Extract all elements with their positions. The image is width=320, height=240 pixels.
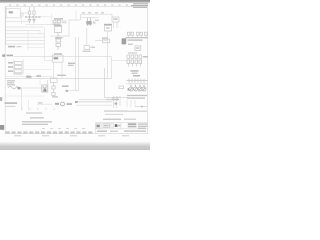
label above C1 <box>57 75 66 76</box>
labels TS1 <box>8 62 13 72</box>
wire W11 <box>21 87 48 89</box>
bottom title text right <box>124 130 146 131</box>
fuse F2 <box>33 7 35 17</box>
motor starter box M1 <box>52 55 63 62</box>
contactor K1 label <box>54 18 63 19</box>
title block header text <box>103 119 121 120</box>
wire W6b <box>28 47 44 49</box>
title block frame <box>96 123 148 134</box>
wire W-top (block B2 feed) <box>81 13 112 15</box>
small label2 above <box>37 75 42 77</box>
marks in LS1 <box>106 27 110 29</box>
bottom title text mid <box>110 131 118 132</box>
riser mid fan <box>27 31 29 50</box>
control box C1 <box>50 78 57 82</box>
label below CG1 row2 <box>132 73 138 74</box>
faint lower wire <box>6 95 44 97</box>
label under SN1 <box>83 51 91 52</box>
node tap right <box>95 20 99 21</box>
bottom title text left <box>97 130 107 132</box>
dark spot <box>115 103 118 105</box>
drop from B1 <box>21 16 23 24</box>
notes text left <box>7 80 15 85</box>
left stub riser <box>39 74 41 85</box>
wire W3 <box>6 33 45 35</box>
stub vertical right <box>51 14 53 20</box>
tick ends row <box>22 108 54 111</box>
corner stamp bottom-left <box>0 125 4 130</box>
tap box <box>21 14 23 16</box>
small box in group <box>113 97 118 100</box>
shielded pair SP1 <box>8 87 19 89</box>
wire W14 <box>37 103 52 105</box>
drop in fan <box>39 31 41 34</box>
notes row A <box>26 112 42 113</box>
arrow head <box>141 105 144 107</box>
tick text above CG1 <box>128 52 137 53</box>
wire W4 <box>6 36 45 38</box>
label right of CG1 <box>143 56 148 58</box>
left feeder bus <box>5 7 7 45</box>
right-mid riser group <box>114 96 121 108</box>
wire W6 <box>6 43 44 45</box>
wire W5 <box>6 40 45 42</box>
node blob <box>75 101 78 103</box>
bus wire L1 <box>25 16 41 18</box>
marks right of coil <box>93 22 96 24</box>
block B3 (small box) <box>112 17 119 22</box>
twin risers mid <box>76 37 79 91</box>
contactor K1 <box>53 20 67 23</box>
riser V3 <box>47 80 49 92</box>
wire W2 <box>6 30 40 32</box>
wire W8 <box>14 56 112 58</box>
label row under L2 <box>128 39 143 40</box>
rev box <box>103 124 110 128</box>
small label above <box>26 76 32 78</box>
wire number marks above <box>82 12 104 13</box>
strip header marks <box>42 128 85 129</box>
label row right <box>127 111 147 112</box>
long wire W10 <box>6 78 112 80</box>
cable schedule strip cells <box>6 131 93 133</box>
label below CG1 <box>131 70 139 72</box>
text right of dwg <box>138 123 148 128</box>
stamp box outline left <box>96 123 101 128</box>
indicator lamps LP1-4 <box>129 85 146 91</box>
contact grid CG1 row1 <box>127 55 142 58</box>
inline fuse on W10a <box>27 75 30 77</box>
lamp bus wire <box>127 83 149 85</box>
notes header <box>30 117 44 118</box>
scan edge bottom <box>0 142 150 151</box>
valve LS1 <box>105 26 112 31</box>
wire W1 <box>6 26 43 28</box>
riser V4 <box>111 57 113 79</box>
stamp box left (dark) <box>97 125 100 128</box>
enclosure bottom corner <box>105 68 129 98</box>
faint wire mid <box>23 69 52 71</box>
marks in T1 <box>136 47 140 49</box>
dwg number blob (dark-ish) <box>128 123 137 125</box>
solenoid label <box>102 37 108 38</box>
label mid <box>55 103 59 105</box>
component blob PS1 <box>122 38 127 44</box>
label above W14 <box>38 102 43 103</box>
text in M1 (dark) <box>54 57 59 59</box>
wire W17 <box>135 106 148 108</box>
label above PH1 <box>133 75 140 77</box>
wire bus extension <box>41 16 53 18</box>
solenoid SOL1 <box>103 39 110 43</box>
riser to B3 <box>111 14 113 17</box>
resistor R1 chain <box>56 39 61 50</box>
bus wire L2 <box>126 37 148 39</box>
dark stub mark <box>66 90 68 92</box>
label mid2 <box>67 103 73 105</box>
rev dot (dark) <box>115 124 118 127</box>
top-right note text block <box>131 3 148 8</box>
riser under M1 left <box>53 62 55 78</box>
gauge G1 <box>61 102 65 106</box>
diode D1 <box>28 18 30 24</box>
notes row C <box>22 124 48 125</box>
right risers <box>127 100 135 107</box>
leads FB1 to bus <box>129 35 146 38</box>
relay coil K2 <box>88 18 91 26</box>
wire W13 <box>76 101 112 103</box>
stub riser <box>75 10 77 20</box>
wire W10a <box>6 76 52 78</box>
riser under M1 right <box>61 62 63 78</box>
terminal box T1 <box>135 46 141 51</box>
label in B1 <box>9 11 14 13</box>
title block header right <box>124 119 136 120</box>
label right of M1 <box>68 63 75 65</box>
fuse F1 <box>28 7 30 17</box>
junction riser left2 <box>28 100 30 110</box>
rev text <box>104 125 109 127</box>
wire W-top2 <box>81 17 99 19</box>
faint label row2 <box>105 114 123 115</box>
wire left feed <box>6 21 30 23</box>
wire below diodes <box>26 23 53 25</box>
label row above strip <box>14 73 22 74</box>
net label N1b <box>17 46 22 47</box>
wire from B1 <box>20 12 28 14</box>
strip side rails <box>14 60 24 75</box>
terminal strip TS1 <box>15 61 23 72</box>
label under enclosure <box>106 99 119 100</box>
marks in B3 <box>113 18 118 19</box>
label rows right bottom <box>127 95 147 99</box>
wire W9 <box>112 60 128 62</box>
enclosure E1 <box>50 20 81 36</box>
border zone ticks top <box>9 5 128 6</box>
border frame <box>5 7 147 134</box>
riser V2 <box>107 31 109 79</box>
cell box <box>111 124 114 127</box>
bottom margin ticks text <box>14 135 129 136</box>
label right of M1 row2 <box>68 65 74 66</box>
label TB1 <box>7 55 14 57</box>
small label <box>128 44 133 45</box>
notes heading <box>5 102 18 103</box>
transformer TX1 <box>42 85 48 92</box>
chain under C1 <box>52 82 55 95</box>
stub left of B2 <box>80 14 82 20</box>
junction riser left <box>21 88 23 110</box>
page background <box>0 0 150 150</box>
relay K3 <box>55 27 62 37</box>
relay K3 label <box>54 25 62 26</box>
wire W7 <box>95 40 108 42</box>
notes line2 <box>6 106 16 107</box>
small comp in enclosure <box>119 86 124 89</box>
label R1 <box>55 37 63 38</box>
splice blob <box>18 87 21 89</box>
riser fan right <box>44 27 46 61</box>
wire W13b <box>76 104 112 106</box>
dark node on bus <box>128 88 130 90</box>
right fuse row FB1 <box>127 32 147 35</box>
right pin header PH1 <box>127 79 149 83</box>
label right of SN1 <box>91 47 96 48</box>
label under K1 <box>53 24 61 25</box>
contact grid CG1 row2 <box>127 60 142 63</box>
wire W12 <box>79 99 112 101</box>
valve label LS1 <box>104 24 112 25</box>
net label N1 <box>8 46 15 48</box>
diode D2 <box>33 18 35 24</box>
label under chain <box>52 96 58 97</box>
notes row B <box>22 121 52 122</box>
dwg number blob row2 <box>128 126 137 128</box>
hatch pins under CG1 <box>128 63 140 66</box>
dark mark TX1 <box>44 89 47 92</box>
scan edge top <box>0 0 150 3</box>
risers under B3 <box>114 22 118 28</box>
wire stub at risers <box>66 90 79 92</box>
block B1 (upper-left box) <box>6 9 20 18</box>
label row under group <box>104 110 127 111</box>
small marks right of dot <box>118 125 120 127</box>
label right of C1 <box>62 85 69 87</box>
wire to M1 <box>45 60 53 62</box>
left margin blob <box>0 97 2 101</box>
vertical riser V1 <box>86 28 88 46</box>
terminal label TB (dark) <box>2 54 5 56</box>
coil body K2 <box>86 21 91 25</box>
sensor box SN1 <box>84 46 90 50</box>
motor starter label <box>54 53 62 54</box>
